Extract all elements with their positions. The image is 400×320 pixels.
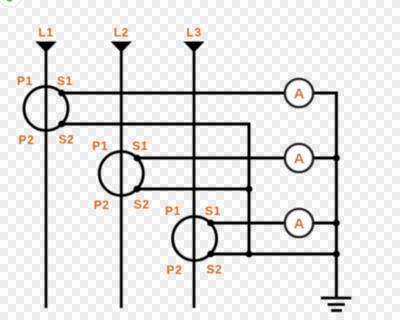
svg-text:A: A: [294, 150, 305, 167]
svg-text:S2: S2: [134, 198, 150, 212]
wire CT3 S1 to ammeter A3: [211, 222, 285, 225]
wire ammeter A3 to right bus: [313, 222, 336, 225]
ammeter A3: [285, 209, 313, 237]
arrowhead L1: [35, 42, 56, 53]
wire L3 phase line: [193, 42, 196, 309]
CT T1 primary circle: [24, 87, 68, 131]
svg-text:P1: P1: [165, 204, 181, 218]
node T1 S2: [58, 121, 65, 128]
svg-text:A: A: [294, 215, 305, 232]
svg-text:S1: S1: [57, 74, 73, 88]
ammeter A1: [285, 79, 313, 107]
svg-text:P2: P2: [94, 198, 110, 212]
svg-text:S2: S2: [207, 263, 223, 277]
node T2 S1: [134, 155, 141, 162]
wire CT1 S1 to ammeter A1: [62, 92, 285, 95]
CT T3 primary circle: [173, 217, 217, 261]
ground: [321, 298, 351, 311]
node T3 S2: [207, 251, 214, 258]
node common-return junction: [246, 251, 253, 258]
wire CT2 S1 to ammeter A2: [137, 157, 285, 160]
svg-text:P1: P1: [17, 74, 33, 88]
wire ammeter A1 to right bus and bus down to ground: [313, 93, 336, 297]
svg-text:S1: S1: [205, 204, 221, 218]
node common-S2 junction: [246, 186, 253, 193]
svg-text:S1: S1: [132, 139, 148, 153]
node bus-return junction: [333, 251, 340, 258]
wire CT2 S2 to common: [137, 188, 249, 191]
ammeter A2: [285, 144, 313, 172]
node bus-A3 junction: [333, 220, 340, 227]
ui artifact (cut-off icon top-left): [0, 0, 22, 7]
wire L2 phase line: [120, 42, 123, 309]
node T3 S1: [207, 220, 214, 227]
svg-text:P1: P1: [92, 139, 108, 153]
svg-text:A: A: [294, 85, 305, 102]
CT T2 primary circle: [99, 152, 143, 196]
node bus-A2 junction: [333, 155, 340, 162]
svg-text:L2: L2: [114, 26, 129, 40]
svg-text:S2: S2: [59, 133, 75, 147]
svg-text:L1: L1: [38, 26, 53, 40]
arrowhead L2: [111, 42, 132, 53]
wire CT1 S2 to common: [62, 124, 249, 254]
node T2 S2: [134, 186, 141, 193]
arrowhead L3: [183, 42, 204, 53]
wire ammeter A2 to right bus: [313, 157, 336, 160]
svg-text:P2: P2: [19, 133, 35, 147]
node T1 S1: [58, 90, 65, 97]
wire L1 phase line: [45, 42, 48, 309]
wire CT3 S2 / common return: [211, 253, 337, 256]
svg-text:L3: L3: [186, 26, 201, 40]
svg-text:P2: P2: [167, 263, 183, 277]
